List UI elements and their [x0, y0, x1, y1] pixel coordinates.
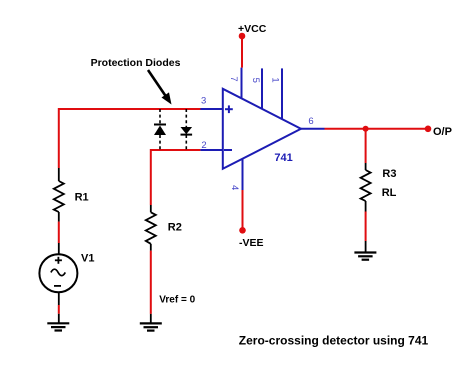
ground V1 [47, 323, 69, 330]
svg-text:V1: V1 [81, 253, 94, 265]
wire node2 horizontal [151, 149, 201, 151]
wire V1 to ground [58, 305, 60, 314]
terminal dot VEE [239, 227, 246, 234]
svg-text:R2: R2 [168, 221, 182, 233]
svg-text:Vref = 0: Vref = 0 [159, 295, 195, 306]
svg-text:6: 6 [308, 116, 313, 127]
wire output to R3 [365, 129, 367, 163]
wire node3 horizontal [59, 108, 201, 110]
terminal dot O/P [425, 126, 432, 133]
svg-text:Protection Diodes: Protection Diodes [91, 57, 181, 69]
svg-text:R3: R3 [382, 168, 396, 180]
op-amp U1 741 [200, 89, 301, 169]
svg-text:R1: R1 [75, 192, 89, 204]
svg-text:Zero-crossing detector using 7: Zero-crossing detector using 741 [239, 333, 429, 347]
svg-text:O/P: O/P [433, 126, 452, 138]
resistor R2 [146, 205, 182, 251]
svg-text:1: 1 [270, 77, 281, 82]
wire VCC [241, 36, 243, 68]
source V1 [39, 243, 94, 305]
svg-text:RL: RL [382, 187, 397, 199]
diode D1 [154, 109, 166, 150]
annotation arrow [148, 70, 172, 105]
svg-text:4: 4 [229, 185, 240, 190]
pin 4 stub [242, 159, 244, 190]
diode D2 [181, 109, 193, 150]
resistor R1 [54, 168, 89, 222]
wire VEE [242, 190, 244, 230]
svg-text:-VEE: -VEE [239, 237, 264, 249]
svg-text:2: 2 [201, 140, 206, 151]
junction dot output [363, 126, 369, 132]
wire RL to ground [365, 212, 367, 242]
svg-text:5: 5 [250, 78, 261, 83]
wire node2 vertical [150, 149, 152, 205]
terminal dot VCC [239, 33, 246, 40]
svg-text:+VCC: +VCC [238, 23, 267, 35]
wire output red [325, 128, 429, 130]
svg-text:741: 741 [274, 152, 292, 164]
wire output blue stub pin6 [301, 128, 325, 130]
svg-text:3: 3 [201, 96, 206, 107]
pin 1 stub [281, 68, 283, 119]
pin 5 stub [261, 68, 263, 109]
svg-text:7: 7 [228, 76, 239, 81]
wire node3 vertical left [58, 108, 60, 168]
ground RL [354, 253, 376, 260]
wire R2 to ground [150, 251, 152, 314]
ground R2 [140, 323, 162, 330]
wire R1 to V1 [58, 222, 60, 243]
pin 7 stub [241, 68, 243, 99]
resistor R3 RL [361, 163, 397, 212]
